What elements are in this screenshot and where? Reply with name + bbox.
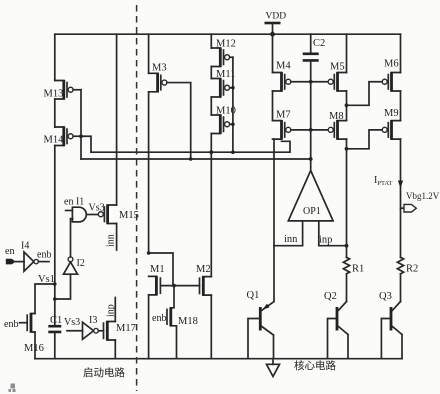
svg-text:enb: enb (152, 313, 166, 324)
transistor M12 (211, 39, 236, 68)
label I_PTAT with arrow (374, 175, 403, 189)
wire M13-M14 gate link / bias taps (79, 90, 91, 159)
transistor M11 (211, 69, 235, 98)
inverter I2 (64, 219, 85, 275)
dashed separator (136, 5, 138, 391)
transistor M8 (328, 111, 346, 140)
svg-text:Vbg1.2V: Vbg1.2V (406, 191, 440, 201)
inverter I3 (64, 315, 104, 339)
transistor Q2 (324, 291, 348, 359)
transistor M14 (44, 126, 82, 146)
svg-text:C2: C2 (313, 38, 325, 49)
svg-text:Vs3: Vs3 (64, 317, 80, 328)
svg-text:inp: inp (106, 304, 117, 317)
transistor M17 (104, 298, 136, 359)
wire M12/M11/M10 column (210, 34, 212, 276)
svg-text:M6: M6 (384, 59, 399, 70)
svg-text:M1: M1 (150, 264, 165, 275)
svg-text:M12: M12 (216, 39, 236, 50)
svg-text:M7: M7 (276, 110, 291, 121)
wire bias bus 1 (91, 141, 290, 152)
svg-text:inn: inn (106, 234, 117, 247)
svg-text:启动电路: 启动电路 (83, 366, 125, 379)
svg-text:I2: I2 (77, 258, 85, 269)
transistor M3 (149, 63, 193, 161)
svg-text:en I1: en I1 (64, 197, 84, 208)
wire M3 source / drain column (148, 34, 150, 253)
wire Vs1 to M16 drain (35, 282, 57, 313)
transistor M4 (273, 61, 292, 92)
capacitor C1 (48, 315, 62, 359)
wire M4-M5 gate line (291, 80, 328, 84)
svg-text:I4: I4 (21, 241, 29, 252)
svg-text:M13: M13 (44, 89, 64, 100)
inverter I4 (21, 241, 51, 272)
transistor M18 (152, 286, 198, 359)
svg-text:enb: enb (37, 250, 51, 261)
node inp (319, 235, 349, 248)
svg-text:VDD: VDD (266, 12, 287, 22)
transistor Q3 (379, 291, 402, 359)
svg-text:M8: M8 (329, 111, 344, 122)
svg-text:M14: M14 (44, 135, 65, 146)
svg-text:M9: M9 (384, 108, 399, 119)
svg-text:inn: inn (284, 234, 298, 245)
svg-text:M18: M18 (178, 316, 198, 327)
svg-text:M3: M3 (152, 63, 167, 74)
svg-text:Q1: Q1 (247, 290, 260, 301)
wire Vs1 to I2 input (53, 274, 71, 301)
scan mark bottom-left (9, 384, 16, 393)
svg-text:M16: M16 (24, 343, 44, 354)
transistor M9 (382, 108, 400, 140)
svg-text:Q3: Q3 (379, 291, 392, 302)
svg-text:OP1: OP1 (303, 206, 321, 217)
input pin en (5, 246, 24, 264)
wire M6/M9 column (400, 34, 402, 301)
wire M5/M8 column (346, 34, 348, 257)
wire bias bus 2 (81, 158, 311, 160)
svg-text:M17: M17 (116, 323, 136, 334)
wire left rail (M13/M14 branch) (54, 34, 56, 326)
wire M4/M7 column (272, 34, 274, 120)
wire M12-M11-M10 gate line (209, 57, 234, 154)
svg-text:IPTAT: IPTAT (374, 175, 392, 187)
svg-text:Q2: Q2 (324, 291, 337, 302)
svg-text:M5: M5 (330, 62, 345, 73)
resistor R2 (397, 257, 418, 274)
wire OP1 output column (309, 61, 313, 171)
resistor R1 (343, 257, 364, 301)
wire VDD top rail (55, 33, 401, 35)
svg-text:inp: inp (319, 235, 332, 246)
capacitor C2 (303, 34, 326, 60)
svg-text:M4: M4 (276, 61, 291, 72)
svg-text:R1: R1 (352, 264, 364, 275)
transistor M16 (4, 313, 44, 359)
wire M5-M8 node to M6 gate (345, 82, 383, 107)
svg-text:M2: M2 (196, 264, 211, 275)
op-amp OP1 (288, 171, 333, 246)
transistor Q1 (247, 246, 275, 359)
transistor M5 (328, 62, 346, 92)
node inn (274, 234, 303, 246)
power VDD symbol (265, 12, 287, 37)
svg-text:核心电路: 核心电路 (294, 359, 336, 372)
svg-text:en: en (5, 246, 14, 257)
transistor M13 (44, 80, 82, 100)
transistor M6 (382, 59, 400, 92)
wire M8 drain to M9 gate (345, 130, 383, 151)
wire M7 drain to node inn (273, 139, 275, 246)
output pin Vbg1.2V (401, 191, 440, 212)
transistor M1 (147, 251, 200, 359)
svg-text:C1: C1 (50, 315, 62, 326)
svg-text:R2: R2 (406, 264, 418, 275)
wire M7-M8 gate line (291, 128, 328, 132)
transistor M7 (273, 110, 291, 140)
svg-text:enb: enb (4, 319, 18, 330)
transistor M2 (196, 264, 211, 359)
ground (267, 359, 280, 377)
transistor M10 (211, 106, 236, 135)
and-gate I1 (64, 197, 105, 222)
svg-text:I3: I3 (89, 315, 97, 326)
wire ground rail (35, 358, 402, 360)
transistor M15 (98, 34, 139, 250)
